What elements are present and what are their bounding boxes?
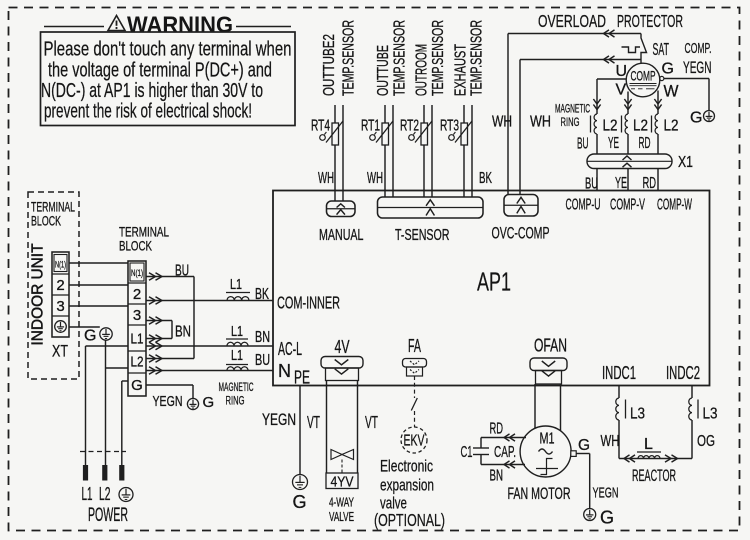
svg-text:TEMP.SENSOR: TEMP.SENSOR xyxy=(469,20,486,96)
svg-text:OUTTUBE2: OUTTUBE2 xyxy=(321,34,338,96)
svg-text:CAP.: CAP. xyxy=(494,444,516,461)
svg-text:RT4: RT4 xyxy=(311,118,330,135)
svg-text:3: 3 xyxy=(133,307,141,324)
svg-text:G: G xyxy=(203,394,215,411)
svg-text:RING: RING xyxy=(561,115,580,129)
svg-text:G: G xyxy=(690,110,702,127)
svg-text:WARNING: WARNING xyxy=(127,12,233,38)
svg-text:G: G xyxy=(131,377,143,394)
svg-text:WH: WH xyxy=(318,170,334,187)
svg-text:BK: BK xyxy=(255,286,269,303)
svg-text:TEMP.SENSOR: TEMP.SENSOR xyxy=(341,20,358,96)
svg-text:WH: WH xyxy=(601,433,620,450)
svg-text:Please don't touch any termina: Please don't touch any terminal when xyxy=(44,38,292,61)
svg-text:PE: PE xyxy=(294,368,310,388)
svg-text:YEGN: YEGN xyxy=(683,58,712,77)
svg-text:YE: YE xyxy=(615,175,627,192)
svg-text:(OPTIONAL): (OPTIONAL) xyxy=(374,510,445,530)
svg-text:X1: X1 xyxy=(678,154,693,171)
svg-text:OVC-COMP: OVC-COMP xyxy=(492,224,550,243)
svg-text:INDC1: INDC1 xyxy=(602,363,636,383)
svg-text:REACTOR: REACTOR xyxy=(632,467,676,485)
svg-text:AP1: AP1 xyxy=(477,269,511,297)
svg-text:OUTTUBE: OUTTUBE xyxy=(375,45,392,96)
svg-text:expansion: expansion xyxy=(380,477,434,495)
svg-text:COMP-W: COMP-W xyxy=(657,197,692,214)
svg-text:YEGN: YEGN xyxy=(262,411,296,429)
svg-text:BU: BU xyxy=(585,176,598,193)
svg-text:EXHAUST: EXHAUST xyxy=(453,44,470,96)
svg-text:L2: L2 xyxy=(131,354,144,371)
svg-text:PROTECTOR: PROTECTOR xyxy=(617,11,683,31)
svg-text:YEGN: YEGN xyxy=(593,485,619,502)
svg-text:AC-L: AC-L xyxy=(278,339,302,359)
svg-text:COMP: COMP xyxy=(631,69,656,84)
svg-text:L1: L1 xyxy=(131,331,144,348)
svg-text:L2: L2 xyxy=(633,118,648,135)
svg-text:L1: L1 xyxy=(231,347,243,364)
svg-text:L2: L2 xyxy=(99,484,111,504)
svg-text:POWER: POWER xyxy=(88,505,128,526)
svg-text:L1: L1 xyxy=(230,276,242,293)
svg-text:WH: WH xyxy=(492,114,512,131)
svg-text:U: U xyxy=(616,63,628,80)
svg-text:MANUAL: MANUAL xyxy=(319,227,364,244)
svg-text:BN: BN xyxy=(490,468,504,485)
svg-text:W: W xyxy=(664,82,679,101)
svg-text:INDC2: INDC2 xyxy=(666,363,700,383)
svg-text:OFAN: OFAN xyxy=(534,336,567,356)
svg-text:3: 3 xyxy=(56,298,64,315)
svg-text:Electronic: Electronic xyxy=(380,458,433,476)
svg-text:TERMINAL: TERMINAL xyxy=(31,200,75,215)
svg-text:L2: L2 xyxy=(603,118,618,135)
svg-text:VT: VT xyxy=(307,412,320,432)
svg-text:L3: L3 xyxy=(630,406,645,423)
svg-text:TEMP.SENSOR: TEMP.SENSOR xyxy=(392,20,409,96)
svg-text:G: G xyxy=(662,61,674,78)
svg-text:BU: BU xyxy=(175,263,189,280)
svg-text:2: 2 xyxy=(133,286,141,303)
svg-text:BU: BU xyxy=(577,136,589,153)
svg-text:N(1): N(1) xyxy=(131,268,143,278)
svg-text:2: 2 xyxy=(56,277,64,294)
svg-text:G: G xyxy=(578,437,590,454)
svg-text:N: N xyxy=(278,361,291,381)
svg-text:RT2: RT2 xyxy=(400,118,419,135)
svg-text:BK: BK xyxy=(479,170,492,187)
svg-text:4YV: 4YV xyxy=(331,474,354,491)
svg-text:M1: M1 xyxy=(540,431,555,448)
svg-text:MAGNETIC: MAGNETIC xyxy=(219,380,254,394)
svg-text:WH: WH xyxy=(367,170,383,187)
svg-text:FAN MOTOR: FAN MOTOR xyxy=(508,484,571,503)
svg-text:INDOOR UNIT: INDOOR UNIT xyxy=(30,243,47,346)
svg-text:BU: BU xyxy=(255,352,270,369)
svg-text:VT: VT xyxy=(365,412,378,432)
svg-text:RD: RD xyxy=(490,421,504,438)
svg-text:L: L xyxy=(644,436,653,453)
svg-text:EKV: EKV xyxy=(404,433,425,450)
svg-text:G: G xyxy=(293,492,307,512)
svg-text:VALVE: VALVE xyxy=(329,509,354,524)
svg-text:G: G xyxy=(600,508,614,528)
svg-text:COMP.: COMP. xyxy=(685,40,712,57)
svg-text:XT: XT xyxy=(52,342,68,361)
svg-text:SAT: SAT xyxy=(653,39,670,59)
svg-text:COM-INNER: COM-INNER xyxy=(277,293,340,313)
svg-text:BN: BN xyxy=(255,329,270,346)
svg-text:RD: RD xyxy=(639,135,651,152)
svg-text:OG: OG xyxy=(697,433,715,450)
svg-text:OVERLOAD: OVERLOAD xyxy=(538,11,606,31)
svg-text:L3: L3 xyxy=(703,406,718,423)
svg-text:C1: C1 xyxy=(461,444,473,461)
svg-text:L1: L1 xyxy=(231,323,243,340)
svg-text:T-SENSOR: T-SENSOR xyxy=(395,227,450,244)
svg-text:MAGNETIC: MAGNETIC xyxy=(555,102,590,116)
svg-text:FA: FA xyxy=(408,336,421,356)
svg-text:COMP-U: COMP-U xyxy=(566,197,601,214)
svg-text:4-WAY: 4-WAY xyxy=(329,495,354,510)
svg-text:BLOCK: BLOCK xyxy=(31,214,61,229)
svg-text:BLOCK: BLOCK xyxy=(119,238,152,254)
svg-text:prevent the risk of electrical: prevent the risk of electrical shock! xyxy=(44,100,252,123)
svg-text:COMP-V: COMP-V xyxy=(610,197,645,214)
svg-text:RT1: RT1 xyxy=(361,118,380,135)
svg-text:TEMP.SENSOR: TEMP.SENSOR xyxy=(430,20,447,96)
svg-text:L2: L2 xyxy=(664,118,679,135)
svg-text:V: V xyxy=(616,82,627,99)
svg-text:RT3: RT3 xyxy=(440,118,459,135)
svg-text:YE: YE xyxy=(608,135,619,152)
svg-text:RD: RD xyxy=(643,175,657,192)
svg-text:G: G xyxy=(84,328,96,345)
svg-text:N(1): N(1) xyxy=(55,260,66,270)
svg-text:WH: WH xyxy=(530,114,551,131)
svg-text:BN: BN xyxy=(175,324,191,341)
svg-text:YEGN: YEGN xyxy=(153,393,183,410)
svg-text:L1: L1 xyxy=(82,484,93,504)
svg-text:RING: RING xyxy=(226,394,245,408)
svg-text:4V: 4V xyxy=(335,337,350,357)
svg-text:OUTROOM: OUTROOM xyxy=(414,44,431,96)
